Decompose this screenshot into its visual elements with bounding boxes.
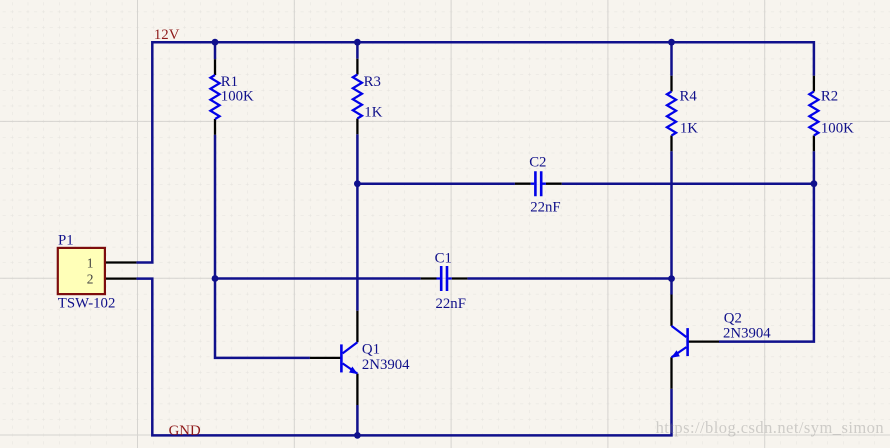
svg-text:GND: GND (169, 423, 201, 439)
svg-text:100K: 100K (821, 120, 854, 136)
svg-text:https://blog.csdn.net/sym_simo: https://blog.csdn.net/sym_simon (656, 418, 884, 437)
svg-text:22nF: 22nF (436, 296, 466, 312)
svg-text:C2: C2 (529, 155, 546, 171)
svg-text:12V: 12V (154, 27, 180, 43)
svg-text:Q2: Q2 (724, 310, 742, 326)
svg-text:P1: P1 (58, 232, 74, 248)
svg-text:R2: R2 (821, 88, 838, 104)
svg-text:2N3904: 2N3904 (362, 357, 410, 373)
svg-text:R3: R3 (364, 74, 381, 90)
svg-text:2: 2 (87, 272, 94, 287)
svg-text:100K: 100K (221, 88, 254, 104)
svg-text:2N3904: 2N3904 (723, 326, 771, 342)
svg-text:22nF: 22nF (530, 199, 560, 215)
svg-text:TSW-102: TSW-102 (58, 295, 116, 311)
svg-text:1K: 1K (680, 120, 698, 136)
svg-text:Q1: Q1 (362, 342, 380, 358)
svg-text:C1: C1 (435, 250, 452, 266)
svg-text:R4: R4 (680, 88, 698, 104)
svg-text:1: 1 (87, 256, 94, 271)
svg-text:1K: 1K (364, 104, 382, 120)
